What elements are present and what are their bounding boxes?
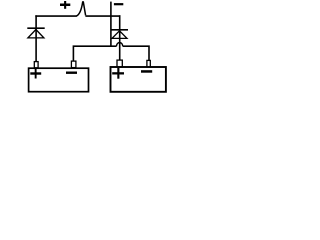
diode D1 triangle: [28, 30, 44, 38]
battery B1 label +: [30, 69, 41, 79]
battery B2 label -: [141, 70, 152, 73]
diode D1 cathode bar: [27, 27, 44, 29]
wire diode D2 branch (top bus to battery 2 positive): [119, 15, 121, 60]
wire diode D1 branch (battery 1 positive to top bus): [35, 15, 37, 61]
diode D2 cathode bar: [111, 29, 128, 31]
wire top bus left segment: [35, 15, 77, 17]
wire negative bus right (to battery 2 negative): [123, 45, 149, 60]
battery B1 negative terminal: [71, 61, 76, 68]
diode D2 triangle: [112, 31, 127, 39]
label + (positive output): [60, 1, 70, 9]
label - (negative output): [114, 3, 123, 5]
battery B2 label +: [112, 68, 124, 79]
battery B1 box: [29, 68, 89, 92]
wire top bus right segment: [85, 15, 120, 17]
battery B1 label -: [66, 72, 77, 74]
battery B2 negative terminal: [147, 60, 150, 67]
wire negative output stub: [110, 2, 112, 47]
crossover hop (no connection): [117, 43, 123, 47]
battery B2 box: [111, 67, 166, 92]
wire negative bus left (battery 1 negative up and right): [73, 46, 117, 61]
battery B2 positive terminal: [117, 60, 122, 67]
fuse F1: [76, 2, 85, 16]
battery B1 positive terminal: [34, 62, 38, 68]
